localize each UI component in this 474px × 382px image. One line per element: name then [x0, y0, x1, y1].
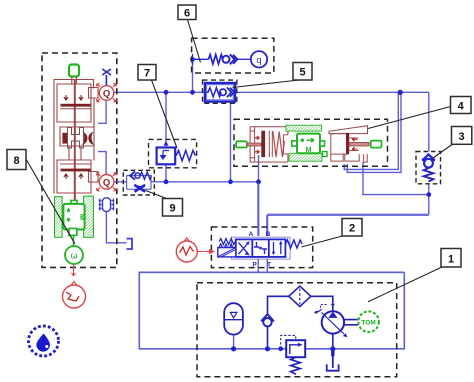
label 5: [293, 63, 312, 81]
label 3: [452, 127, 472, 145]
relief valve pump: [286, 340, 305, 357]
pilot check valve 3: [416, 152, 441, 184]
node drain join x428: [426, 192, 431, 197]
svg-text:9: 9: [169, 203, 175, 215]
svg-text:Q: Q: [103, 88, 110, 99]
spool land block: [62, 133, 67, 144]
piston arrows upper: [64, 96, 83, 101]
wire accumulator stem: [233, 335, 235, 349]
wire pump to rail: [332, 334, 334, 349]
label 8: [7, 150, 26, 170]
port green top: [69, 65, 79, 77]
port green manifold right: [371, 141, 382, 148]
case drain symbol: [321, 305, 327, 310]
svg-text:5: 5: [299, 67, 305, 79]
svg-text:M: M: [306, 147, 312, 154]
power unit 1 dashed enclosure: [197, 283, 397, 377]
valve2 solenoid box: [218, 248, 236, 257]
plugged port X symbol: [102, 69, 111, 85]
hatch band bottom: [289, 153, 322, 161]
label 7: [138, 65, 156, 81]
relief valve 5: [203, 80, 237, 103]
chamber arrows left: [255, 136, 260, 153]
svg-text:6: 6: [184, 8, 190, 20]
wire big loop PT to tank rail: [139, 272, 404, 349]
spool land manifold left: [261, 131, 265, 157]
tank symbol left: [127, 239, 133, 249]
piston bar lower: [61, 169, 91, 172]
MAIN WIRES: [98, 60, 429, 349]
valve2 left proportional springs: [219, 239, 235, 251]
svg-text:q: q: [256, 55, 261, 65]
check valve comp6: [223, 56, 230, 63]
wire comp3 branch x=428.8: [428, 92, 430, 215]
spool land manifold right: [346, 133, 349, 154]
valve2 outer rails: [232, 237, 291, 259]
port green manifold left: [236, 141, 247, 147]
callout line 3: [433, 145, 452, 159]
label 9: [163, 199, 183, 217]
motor TOM: [358, 311, 379, 332]
wire P T below valve2: [258, 259, 267, 273]
label 6: [178, 5, 196, 20]
right section body: [331, 134, 367, 163]
node pressure line at x166: [164, 90, 169, 95]
callout line 8: [26, 159, 75, 244]
wire pilot line y=181.8: [115, 181, 259, 183]
actuator hatched guide right: [84, 196, 94, 237]
red link to source: [72, 264, 76, 276]
node rail check: [265, 346, 270, 351]
rod into spool: [247, 143, 261, 146]
label boxes: [7, 5, 472, 267]
node pressure line at x400: [398, 90, 403, 95]
hydraulic oil drop icon: [29, 326, 59, 356]
signal source S1: [63, 282, 86, 309]
hatch band top: [286, 125, 322, 131]
mass block M: [63, 200, 87, 235]
bypass check-throttle 9: [123, 170, 154, 195]
callout lines: [26, 20, 452, 302]
check valve pump: [261, 314, 274, 321]
valve2 body: [236, 239, 286, 257]
svg-text:8: 8: [13, 155, 19, 167]
wire manifold drain x=363: [363, 162, 429, 195]
signal source S2: [176, 241, 197, 262]
wire comp6 internal: [193, 54, 209, 65]
accumulator: [224, 303, 243, 334]
piston bar upper: [61, 104, 91, 107]
wire comp5 drop x=230.5: [230, 102, 232, 182]
label 2: [342, 219, 362, 237]
callout line 5: [233, 80, 300, 88]
piston arrows lower: [64, 174, 83, 179]
pressure source q: [251, 51, 267, 67]
svg-text:B: B: [266, 231, 271, 238]
shaft: [344, 320, 358, 325]
valve2 left cell cross arrows: [239, 241, 250, 255]
node pilot line at x166: [164, 179, 169, 184]
pump: [322, 311, 344, 333]
node rail accumulator: [231, 346, 236, 351]
callout line 1: [368, 267, 443, 302]
rod right: [349, 142, 369, 146]
reducing section body: [250, 127, 288, 162]
wire A drop continue: [257, 182, 259, 236]
wire manifold drain x=258.5 to valve A: [258, 155, 260, 236]
node comp6 tap: [190, 57, 195, 62]
svg-text:1: 1: [448, 254, 454, 266]
wire filter left + check valve column: [268, 296, 289, 349]
wire filter right to pump: [311, 296, 333, 311]
callout line 4: [368, 107, 451, 129]
spring red manifold: [273, 132, 284, 158]
spring comp6: [209, 55, 223, 64]
wire B drop x=267.2: [266, 215, 268, 236]
wire comp6 riser x=192: [192, 60, 194, 92]
chamber arrows right: [352, 138, 357, 151]
wire double return loop outer: [347, 92, 401, 172]
svg-text:A: A: [249, 231, 254, 238]
valve2 center cell blocked: [254, 242, 267, 254]
svg-text:3: 3: [459, 131, 465, 143]
svg-text:M: M: [78, 214, 87, 220]
callout line 6: [188, 20, 201, 63]
flow sensor Q1: [97, 84, 117, 102]
valve2 right spring: [285, 240, 302, 248]
svg-text:ω: ω: [70, 251, 77, 261]
brake manifold 4 dashed enclosure: [234, 119, 388, 166]
label 4: [451, 97, 472, 114]
speed sensor omega: [65, 235, 83, 264]
pilot motor M box: [292, 134, 327, 157]
wire Q bottom elbow: [98, 152, 106, 174]
spool center rod: [74, 80, 76, 203]
svg-text:Q: Q: [103, 177, 110, 188]
svg-text:T: T: [267, 262, 271, 269]
wire Q top elbow: [98, 101, 106, 124]
wire long B line y=214.8: [267, 214, 429, 216]
port letters: [249, 231, 271, 269]
spool cross: [68, 128, 84, 149]
callout line 7: [152, 80, 178, 148]
right section horn: [329, 126, 368, 134]
wire double return loop inner: [344, 92, 398, 169]
command arrow red: [198, 251, 210, 253]
filter: [289, 286, 311, 306]
pilot supply unit 6 dashed enclosure: [192, 38, 274, 73]
node pilot line at x258: [256, 179, 261, 184]
actuator hatched guide left: [55, 197, 63, 238]
wire solenoid to tank: [106, 211, 126, 242]
left servo valve assembly dashed enclosure: [42, 53, 117, 267]
tank symbol pump: [331, 350, 334, 356]
pump intake arrow: [331, 304, 335, 307]
svg-text:7: 7: [144, 68, 150, 80]
wire main pressure line y=92: [115, 91, 429, 93]
flow sensor Q2: [97, 173, 117, 191]
node pressure line at x192: [190, 90, 195, 95]
solenoid coil symbol: [99, 198, 115, 212]
node pilot line at x230: [228, 179, 233, 184]
callout line 9: [146, 191, 169, 200]
wire comp7 riser x=166: [165, 92, 167, 182]
reducing valve 7: [149, 139, 197, 167]
svg-text:4: 4: [458, 101, 465, 113]
callout line 2: [302, 236, 345, 248]
svg-text:2: 2: [349, 223, 355, 235]
node rail pump tank: [330, 346, 335, 351]
spool crescents: [82, 132, 88, 146]
valve body outline: [54, 77, 98, 193]
svg-text:TOM: TOM: [361, 320, 375, 327]
label 1: [441, 249, 461, 268]
svg-text:P: P: [252, 262, 257, 269]
valve2 right cell parallel arrows: [272, 241, 283, 256]
node rail relief pilot: [278, 346, 283, 351]
proportional valve 2 dashed enclosure: [211, 227, 312, 268]
